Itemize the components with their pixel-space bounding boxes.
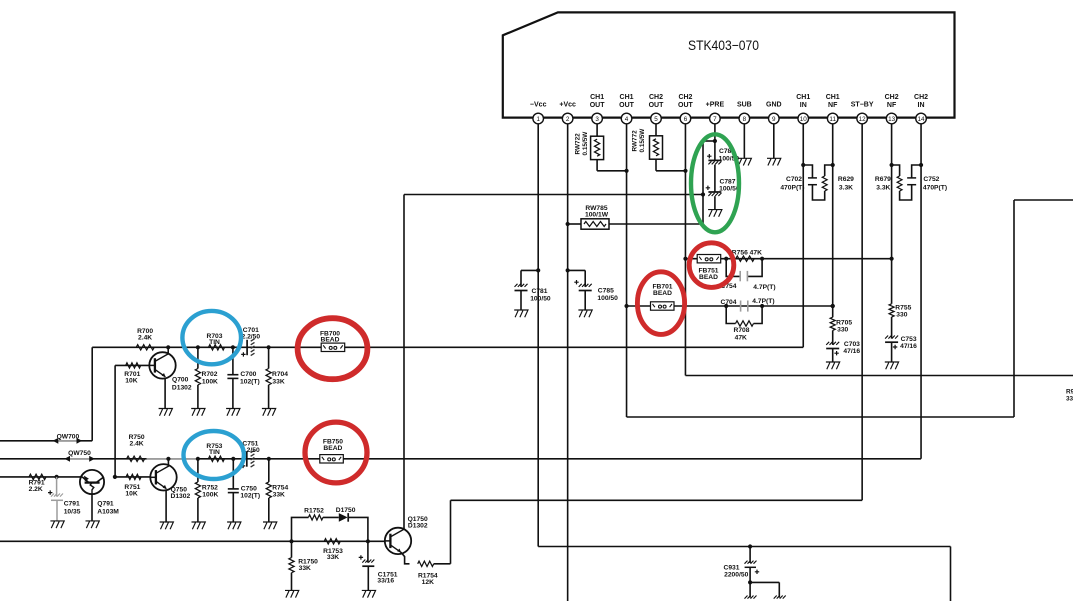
svg-text:C785: C785: [598, 288, 614, 295]
svg-text:A103M: A103M: [97, 508, 119, 515]
svg-text:470P(T): 470P(T): [780, 185, 804, 192]
svg-text:100K: 100K: [202, 379, 218, 386]
svg-text:BEAD: BEAD: [653, 290, 672, 297]
svg-text:D1302: D1302: [172, 385, 192, 392]
svg-text:+Vcc: +Vcc: [559, 102, 576, 109]
svg-text:4.7P(T): 4.7P(T): [753, 284, 775, 291]
svg-text:102(T): 102(T): [240, 493, 260, 500]
svg-text:R754: R754: [272, 484, 288, 491]
svg-text:QW700: QW700: [57, 433, 80, 440]
svg-text:BEAD: BEAD: [699, 274, 718, 281]
svg-text:47K: 47K: [735, 334, 747, 341]
svg-text:GND: GND: [766, 102, 782, 109]
svg-text:BEAD: BEAD: [321, 336, 340, 343]
svg-text:CH2: CH2: [678, 94, 692, 101]
svg-text:QW750: QW750: [68, 450, 91, 457]
svg-text:4.7P(T): 4.7P(T): [752, 298, 774, 305]
svg-text:2.2/50: 2.2/50: [242, 334, 261, 341]
svg-text:OUT: OUT: [649, 102, 665, 109]
svg-text:−Vcc: −Vcc: [530, 102, 547, 109]
svg-text:C750: C750: [241, 485, 257, 492]
svg-text:+PRE: +PRE: [706, 102, 725, 109]
svg-text:3: 3: [595, 116, 599, 123]
svg-text:47/16: 47/16: [900, 343, 917, 350]
svg-text:NF: NF: [887, 102, 897, 109]
svg-text:9: 9: [772, 116, 776, 123]
svg-text:11: 11: [829, 116, 836, 123]
svg-text:102(T): 102(T): [240, 379, 260, 386]
svg-text:IN: IN: [800, 102, 807, 109]
svg-text:0.15/5W: 0.15/5W: [582, 131, 589, 156]
svg-text:ST−BY: ST−BY: [851, 102, 874, 109]
svg-text:2.2K: 2.2K: [29, 486, 43, 493]
svg-text:C702: C702: [786, 176, 802, 183]
svg-text:C781: C781: [532, 288, 548, 295]
svg-text:C704: C704: [721, 299, 737, 306]
svg-text:R1752: R1752: [304, 508, 324, 515]
svg-text:CH1: CH1: [620, 94, 634, 101]
svg-text:14: 14: [918, 116, 926, 123]
svg-text:100/1W: 100/1W: [585, 211, 609, 218]
svg-text:C791: C791: [64, 501, 80, 508]
svg-text:C700: C700: [240, 371, 256, 378]
svg-text:10K: 10K: [125, 490, 137, 497]
svg-text:2.4K: 2.4K: [138, 334, 152, 341]
svg-text:CH1: CH1: [796, 94, 810, 101]
svg-text:10: 10: [800, 116, 808, 123]
svg-text:RW722: RW722: [574, 133, 581, 155]
svg-text:BEAD: BEAD: [323, 445, 342, 452]
svg-text:100K: 100K: [202, 492, 218, 499]
svg-text:C931: C931: [724, 564, 740, 571]
svg-text:NF: NF: [828, 102, 838, 109]
svg-text:CH1: CH1: [590, 94, 604, 101]
svg-text:5: 5: [654, 116, 658, 123]
svg-text:2200/50: 2200/50: [724, 572, 748, 579]
svg-text:6: 6: [684, 116, 688, 123]
svg-text:R756 47K: R756 47K: [732, 250, 762, 257]
svg-text:R679: R679: [875, 176, 891, 183]
svg-text:R752: R752: [202, 484, 218, 491]
svg-text:RW772: RW772: [631, 130, 638, 152]
svg-text:CH2: CH2: [885, 94, 899, 101]
svg-text:TIN: TIN: [209, 339, 220, 346]
svg-text:Q700: Q700: [172, 377, 189, 384]
svg-text:4: 4: [625, 116, 629, 123]
svg-text:10K: 10K: [125, 378, 137, 385]
svg-text:330: 330: [896, 311, 907, 318]
svg-text:12K: 12K: [422, 579, 434, 586]
svg-text:D1302: D1302: [171, 493, 191, 500]
svg-text:100/50: 100/50: [597, 295, 618, 302]
svg-text:2.4K: 2.4K: [130, 441, 144, 448]
svg-text:13: 13: [888, 116, 896, 123]
svg-text:470P(T): 470P(T): [923, 185, 947, 192]
svg-text:33K: 33K: [273, 492, 285, 499]
svg-text:330: 330: [837, 327, 848, 334]
svg-text:3.3K: 3.3K: [876, 185, 890, 192]
svg-text:47/16: 47/16: [843, 348, 860, 355]
svg-text:IN: IN: [918, 102, 925, 109]
svg-text:R702: R702: [202, 371, 218, 378]
svg-text:OUT: OUT: [678, 102, 694, 109]
svg-text:R9: R9: [1066, 389, 1073, 396]
svg-text:2: 2: [566, 116, 570, 123]
svg-text:R629: R629: [838, 176, 854, 183]
svg-text:OUT: OUT: [590, 102, 606, 109]
svg-text:D1750: D1750: [336, 507, 356, 514]
svg-text:TIN: TIN: [209, 449, 220, 456]
svg-text:7: 7: [713, 116, 717, 123]
svg-text:C787: C787: [720, 178, 736, 185]
svg-text:3.3K: 3.3K: [839, 185, 853, 192]
svg-text:R704: R704: [272, 371, 288, 378]
svg-text:33K: 33K: [272, 379, 284, 386]
svg-text:33: 33: [1066, 396, 1073, 403]
svg-text:8: 8: [743, 116, 747, 123]
svg-text:0.15/5W: 0.15/5W: [639, 128, 646, 153]
svg-text:CH2: CH2: [914, 94, 928, 101]
svg-text:33K: 33K: [299, 565, 311, 572]
svg-text:100/50: 100/50: [530, 296, 551, 303]
svg-text:CH2: CH2: [649, 94, 663, 101]
svg-text:Q791: Q791: [97, 500, 114, 507]
svg-text:10/35: 10/35: [64, 508, 81, 515]
svg-text:1: 1: [536, 116, 540, 123]
svg-text:CH1: CH1: [826, 94, 840, 101]
svg-text:SUB: SUB: [737, 102, 752, 109]
svg-text:D1302: D1302: [408, 522, 428, 529]
svg-text:33K: 33K: [327, 554, 339, 561]
svg-text:STK403−070: STK403−070: [688, 37, 759, 53]
svg-text:C752: C752: [923, 176, 939, 183]
svg-text:12: 12: [859, 116, 867, 123]
svg-text:OUT: OUT: [619, 102, 635, 109]
svg-text:33/16: 33/16: [377, 578, 394, 585]
svg-text:R708: R708: [734, 327, 750, 334]
